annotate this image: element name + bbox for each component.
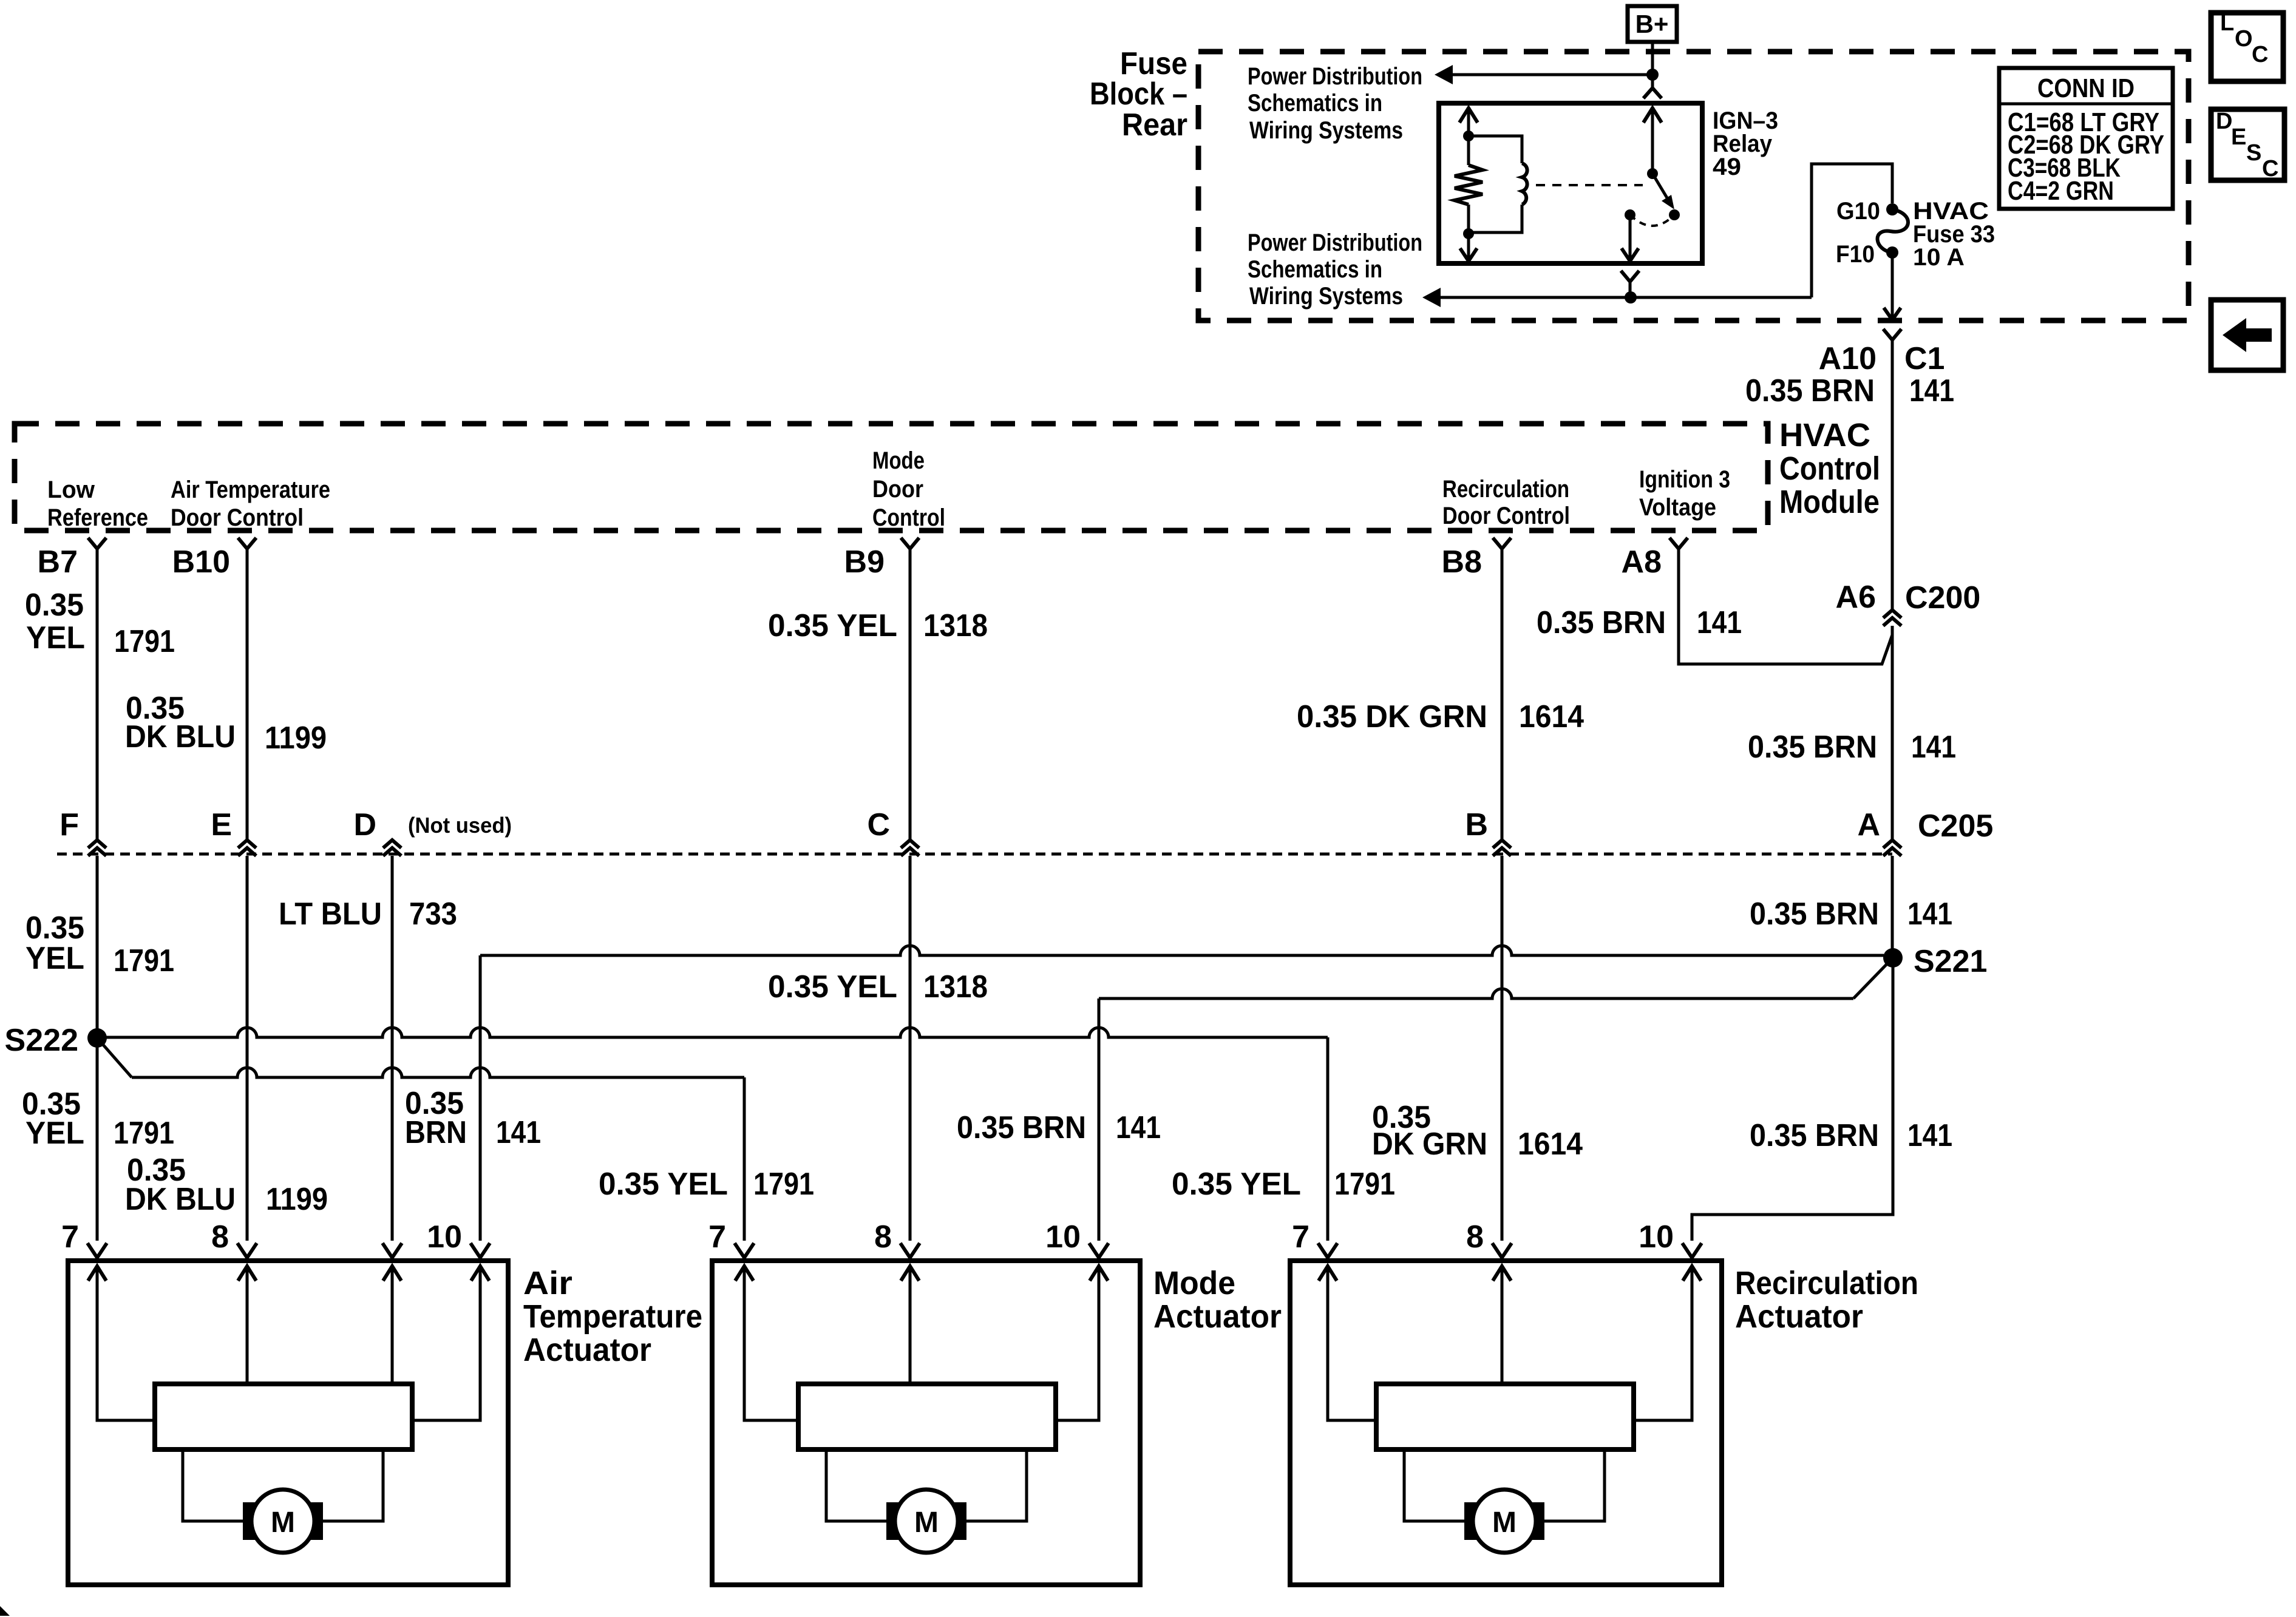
connector symbol below relay: [1621, 271, 1639, 297]
svg-text:S222: S222: [5, 1023, 78, 1058]
wire: B7 low reference to C205 F: [96, 549, 99, 840]
wire: B10 air temp door control to C205 E: [246, 549, 249, 840]
wire: E to air temp actuator pin 8: [246, 856, 249, 1241]
svg-text:B8: B8: [1442, 544, 1482, 580]
module pin B7: [38, 538, 106, 580]
svg-text:7: 7: [708, 1219, 726, 1255]
label: air temperature actuator: [523, 1265, 702, 1368]
svg-text:E: E: [211, 807, 232, 842]
label: HVAC Fuse 33 10 A: [1913, 198, 1995, 271]
svg-text:49: 49: [1713, 154, 1741, 180]
recirculation pin 7: [1292, 1219, 1337, 1258]
label: recirculation actuator: [1735, 1265, 1918, 1335]
splice S221: [1883, 944, 1987, 979]
svg-text:A10: A10: [1819, 341, 1877, 376]
label: 0.35 BRN 141 (above S221): [1750, 897, 1952, 932]
wire: S222 branch to mode actuator pin 7: [132, 1068, 744, 1241]
svg-text:S221: S221: [1914, 944, 1987, 979]
svg-text:1791: 1791: [753, 1167, 814, 1202]
air temperature pin 7: [61, 1219, 107, 1258]
wire: B9 mode door control to C205 C: [909, 549, 912, 840]
label: 0.35 BRN 141 (recirc pin 10): [1750, 1118, 1952, 1153]
svg-text:B+: B+: [1635, 10, 1669, 38]
mode motor M: [895, 1490, 958, 1553]
svg-text:0.35: 0.35: [25, 588, 84, 623]
svg-text:BRN: BRN: [405, 1115, 467, 1150]
label: 0.35 DK BLU 1199 (B10): [125, 691, 327, 756]
svg-text:0.35 DK GRN: 0.35 DK GRN: [1297, 699, 1487, 734]
fuse block - rear dashed boundary box: [1198, 52, 2189, 320]
svg-text:1199: 1199: [266, 1182, 328, 1217]
mode actuator box: [712, 1261, 1140, 1585]
wire: S221 to air temp actuator pin 10: [480, 946, 1884, 1241]
relay output wire down: [1622, 215, 1639, 261]
svg-text:B7: B7: [38, 544, 78, 580]
label: 0.35 DK BLU 1199 (E): [125, 1153, 328, 1217]
mode position sensor block: [798, 1384, 1056, 1449]
svg-text:Ignition 3: Ignition 3: [1639, 466, 1730, 493]
label: 0.35 BRN 141 (above C205): [1748, 730, 1956, 765]
relay box IGN-3 Relay 49: [1439, 103, 1702, 263]
svg-text:8: 8: [211, 1219, 229, 1255]
mode pin 8: [874, 1219, 920, 1258]
wire: S221 down and over to recirculation pin 10: [1692, 958, 1893, 1241]
module pin B9: [844, 538, 919, 580]
svg-text:C205: C205: [1918, 808, 1993, 844]
svg-text:141: 141: [496, 1115, 541, 1150]
CONN ID table: [1999, 68, 2173, 209]
svg-text:YEL: YEL: [25, 941, 84, 976]
air temperature motor terminals: [243, 1502, 323, 1540]
DESC box: [2211, 109, 2284, 181]
svg-text:Control: Control: [1779, 450, 1880, 487]
label: 0.35 BRN 141 (A8): [1537, 605, 1742, 640]
module pin B10: [172, 538, 256, 580]
label: 0.35 YEL 1791 (mode pin 7): [599, 1167, 814, 1202]
C205 pin D: [353, 807, 401, 856]
air temperature pin 8 internal wire: [238, 1266, 256, 1384]
module pin A8: [1622, 538, 1688, 580]
relay coil-branch top arrow: [1459, 108, 1478, 136]
C205 pin C: [867, 807, 919, 856]
svg-text:Mode: Mode: [872, 447, 925, 474]
svg-text:Actuator: Actuator: [1735, 1298, 1863, 1335]
relay switch arm: [1652, 174, 1674, 209]
svg-text:141: 141: [1909, 373, 1954, 408]
recirculation motor terminals: [1464, 1502, 1544, 1540]
relay coil-branch bottom arrow: [1460, 234, 1477, 261]
inline connector C205 dashed line: [57, 853, 1892, 856]
label: mode actuator: [1153, 1265, 1282, 1335]
label: 0.35 YEL 1791 (recirc pin 7): [1172, 1167, 1395, 1202]
svg-text:141: 141: [1116, 1110, 1161, 1145]
svg-text:C200: C200: [1905, 580, 1980, 615]
svg-text:141: 141: [1911, 730, 1956, 765]
label: 0.35 YEL 1791 (F below S222): [22, 1086, 174, 1151]
svg-text:D: D: [2216, 109, 2232, 134]
svg-text:10: 10: [1639, 1219, 1674, 1255]
svg-text:7: 7: [61, 1219, 79, 1255]
wire: A8 ignition 3 voltage to C200 A6: [1679, 549, 1892, 664]
svg-text:F: F: [59, 807, 79, 842]
svg-text:Low: Low: [47, 476, 95, 503]
label: 0.35 BRN 141 (below C1): [1745, 373, 1954, 408]
svg-text:1614: 1614: [1519, 699, 1584, 734]
recirculation motor M: [1473, 1490, 1536, 1553]
relay coil-branch top junction dot: [1463, 131, 1474, 141]
label: pin A6 / connector C200: [1836, 580, 1981, 615]
svg-text:0.35 BRN: 0.35 BRN: [1537, 605, 1666, 640]
HVAC Fuse 33 element: [1878, 209, 1908, 253]
label: LT BLU 733 (D): [279, 897, 457, 932]
module pin B8: [1442, 538, 1511, 580]
svg-text:Schematics in: Schematics in: [1248, 90, 1382, 117]
mode pin 7: [708, 1219, 754, 1258]
svg-text:Block –: Block –: [1090, 76, 1187, 112]
junction dot on relay output: [1625, 291, 1637, 303]
svg-text:C: C: [867, 807, 890, 842]
label: C205: [1918, 808, 1993, 844]
C205 pin B: [1465, 807, 1511, 856]
svg-text:0.35 BRN: 0.35 BRN: [1748, 730, 1877, 765]
svg-text:A6: A6: [1836, 580, 1876, 615]
svg-text:Reference: Reference: [47, 504, 148, 531]
svg-text:DK GRN: DK GRN: [1372, 1127, 1487, 1162]
svg-text:Control: Control: [872, 504, 945, 531]
arrowhead: to power distribution schematics (bottom): [1422, 288, 1441, 307]
svg-text:10: 10: [1045, 1219, 1081, 1255]
svg-text:1318: 1318: [923, 969, 988, 1005]
mode pin 10 internal wire: [1056, 1266, 1108, 1420]
recirculation pin 8 internal wire: [1493, 1266, 1511, 1384]
air temperature pin 10 internal wire: [412, 1266, 489, 1420]
svg-text:0.35 YEL: 0.35 YEL: [1172, 1167, 1301, 1202]
HVAC control module dashed box: [15, 424, 1768, 531]
wire: S221 diagonal to mode pin 10 branch: [1853, 958, 1893, 998]
svg-text:B: B: [1465, 807, 1488, 842]
air temperature position sensor block: [155, 1384, 412, 1449]
air temperature pin 10: [427, 1219, 490, 1258]
svg-text:141: 141: [1907, 1118, 1952, 1153]
svg-text:L: L: [2220, 10, 2234, 36]
svg-text:M: M: [271, 1507, 295, 1539]
air temperature motor wires: [183, 1449, 383, 1521]
svg-text:G10: G10: [1836, 198, 1880, 225]
C205 pin A: [1857, 807, 1901, 856]
air temperature motor M: [251, 1490, 314, 1553]
svg-text:0.35 BRN: 0.35 BRN: [1750, 897, 1879, 932]
svg-text:A: A: [1857, 807, 1880, 842]
mode pin 7 internal wire: [735, 1266, 798, 1420]
mode motor terminals: [886, 1502, 966, 1540]
air temperature unused pin entry: [382, 1243, 402, 1258]
svg-text:1791: 1791: [114, 943, 174, 978]
svg-text:141: 141: [1907, 897, 1952, 932]
svg-text:Schematics in: Schematics in: [1248, 256, 1382, 283]
svg-text:F10: F10: [1836, 241, 1875, 268]
label: Power Distribution Schematics in Wiring Systems (top): [1248, 63, 1422, 144]
svg-text:Power Distribution: Power Distribution: [1248, 229, 1422, 256]
relay switch fixed contact dots: [1625, 209, 1680, 220]
fuse terminal dot G10: [1886, 203, 1898, 215]
label: Ignition 3 Voltage: [1639, 466, 1730, 521]
air temperature actuator box: [68, 1261, 508, 1585]
back-arrow box: [2211, 300, 2283, 370]
wire: 141 BRN from C1 to C200: [1891, 340, 1894, 610]
connector symbol below B+: [1643, 88, 1662, 98]
label: 0.35 DK GRN 1614 (B): [1372, 1100, 1583, 1162]
svg-text:141: 141: [1697, 605, 1742, 640]
wire: F to air temp actuator pin 7: [96, 856, 99, 1241]
wire: relay output to power distribution (left arrow): [1441, 296, 1812, 299]
junction dot on B+ feed: [1646, 69, 1659, 81]
splice S222: [5, 1023, 107, 1058]
svg-text:A8: A8: [1622, 544, 1662, 580]
svg-text:C: C: [2262, 156, 2278, 181]
wire: relay output up and over to fuse G10: [1812, 164, 1892, 297]
svg-text:D: D: [353, 807, 376, 842]
label: Power Distribution Schematics in Wiring Systems (bottom): [1248, 229, 1422, 310]
recirculation pin 8: [1466, 1219, 1512, 1258]
relay coil: [1469, 136, 1527, 232]
air temperature pin 7 internal wire: [88, 1266, 155, 1420]
wire: D to air temp actuator (not used): [391, 856, 394, 1241]
power node B+: [1628, 6, 1677, 42]
svg-text:E: E: [2231, 124, 2246, 150]
svg-text:CONN ID: CONN ID: [2037, 73, 2135, 103]
fuse terminal dot F10: [1886, 246, 1898, 259]
svg-text:Rear: Rear: [1122, 107, 1187, 143]
svg-text:Voltage: Voltage: [1639, 494, 1716, 521]
svg-text:Recirculation: Recirculation: [1442, 476, 1569, 503]
svg-text:733: 733: [409, 897, 457, 932]
recirculation actuator box: [1290, 1261, 1722, 1585]
svg-text:0.35 YEL: 0.35 YEL: [599, 1167, 728, 1202]
svg-text:C1: C1: [1904, 341, 1944, 376]
svg-text:YEL: YEL: [26, 620, 85, 656]
svg-text:1791: 1791: [1334, 1167, 1395, 1202]
svg-text:DK BLU: DK BLU: [125, 1182, 236, 1217]
relay switch input arrow: [1643, 108, 1662, 174]
wire: C to mode actuator pin 8: [909, 856, 912, 1241]
inline connector C200 pin A6: [1883, 610, 1901, 626]
svg-text:1791: 1791: [114, 1116, 174, 1151]
mode pin 8 internal wire: [901, 1266, 919, 1384]
svg-text:7: 7: [1292, 1219, 1309, 1255]
svg-text:Actuator: Actuator: [1153, 1298, 1282, 1335]
svg-text:(Not used): (Not used): [408, 813, 512, 838]
label: 0.35 YEL 1318 (C): [768, 969, 988, 1005]
relay switch pivot dot: [1647, 168, 1658, 179]
mode pin 10: [1045, 1219, 1109, 1258]
label: Recirculation Door Control: [1442, 476, 1570, 529]
mode motor wires: [826, 1449, 1027, 1521]
svg-text:Door Control: Door Control: [1442, 503, 1570, 529]
air temperature unused pin internal wire: [383, 1266, 401, 1384]
dashed travel arc of relay switch: [1630, 215, 1674, 226]
svg-text:S: S: [2246, 140, 2261, 166]
connector symbol C1 below fuse block: [1883, 329, 1901, 340]
wire: S222 diagonal to mode pin 7 branch: [97, 1038, 132, 1077]
resistor (relay internal): [1455, 136, 1483, 234]
C205 pin E: [211, 807, 256, 856]
svg-text:8: 8: [874, 1219, 892, 1255]
svg-text:0.35 BRN: 0.35 BRN: [1750, 1118, 1879, 1153]
recirculation pin 10: [1639, 1219, 1702, 1258]
label: 0.35 YEL 1791 (B7): [25, 588, 175, 659]
label: HVAC Control Module: [1779, 417, 1880, 520]
svg-text:Mode: Mode: [1153, 1265, 1235, 1301]
wire: 141 BRN from C200 to C205: [1891, 626, 1894, 840]
label: pin A10 / connector C1: [1819, 341, 1945, 376]
svg-text:8: 8: [1466, 1219, 1484, 1255]
svg-text:1199: 1199: [265, 720, 327, 756]
svg-text:Actuator: Actuator: [523, 1332, 651, 1368]
label: G10: [1836, 198, 1880, 225]
svg-text:DK BLU: DK BLU: [125, 719, 236, 754]
recirculation pin 7 internal wire: [1319, 1266, 1376, 1420]
wire: feed to power distribution (left arrow): [1447, 73, 1652, 76]
recirculation position sensor block: [1376, 1384, 1634, 1449]
label: 0.35 BRN 141 (air temp pin 10): [405, 1086, 541, 1150]
label: 0.35 YEL 1318 (B9): [768, 608, 988, 643]
wire: B+ down into fuse block: [1651, 42, 1654, 88]
wire: B to recirculation actuator pin 8: [1501, 856, 1504, 1241]
svg-text:B9: B9: [844, 544, 885, 580]
svg-text:Temperature: Temperature: [523, 1298, 702, 1335]
relay coil-branch bottom junction dot: [1463, 228, 1474, 239]
label: 0.35 YEL 1791 (F above S222): [25, 910, 174, 978]
recirculation pin 10 internal wire: [1634, 1266, 1701, 1420]
svg-text:1318: 1318: [923, 608, 988, 643]
svg-text:0.35 YEL: 0.35 YEL: [768, 969, 897, 1005]
svg-text:Air: Air: [523, 1265, 572, 1301]
svg-text:Power Distribution: Power Distribution: [1248, 63, 1422, 90]
label: Low Reference: [47, 476, 148, 531]
svg-text:C4=2 GRN: C4=2 GRN: [2008, 176, 2114, 206]
svg-text:Wiring Systems: Wiring Systems: [1249, 283, 1403, 310]
svg-text:10 A: 10 A: [1913, 244, 1965, 271]
svg-text:M: M: [914, 1507, 939, 1539]
svg-text:LT BLU: LT BLU: [279, 897, 382, 932]
svg-text:1614: 1614: [1518, 1127, 1583, 1162]
recirculation motor wires: [1404, 1449, 1605, 1521]
svg-text:B10: B10: [172, 544, 230, 580]
wire: A down to splice S221: [1891, 856, 1894, 958]
svg-text:Wiring Systems: Wiring Systems: [1249, 117, 1403, 144]
svg-text:C: C: [2252, 42, 2268, 67]
arrowhead: to power distribution schematics (top): [1435, 65, 1453, 84]
label: Fuse Block - Rear: [1090, 46, 1187, 143]
wire: fuse F10 output down: [1891, 253, 1894, 319]
label: IGN-3 Relay 49: [1713, 107, 1778, 180]
LOC box: [2211, 10, 2283, 81]
label: 0.35 DK GRN 1614 (B8): [1297, 699, 1584, 734]
label: 0.35 BRN 141 (mode pin 10): [957, 1110, 1161, 1145]
svg-text:Door Control: Door Control: [171, 504, 304, 531]
C205 pin F: [59, 807, 106, 856]
label: F10: [1836, 241, 1875, 268]
label: Mode Door Control: [872, 447, 945, 531]
svg-text:M: M: [1492, 1507, 1517, 1539]
label: Air Temperature Door Control: [171, 476, 330, 531]
svg-text:0.35 YEL: 0.35 YEL: [768, 608, 897, 643]
svg-text:1791: 1791: [114, 624, 175, 659]
wire: B8 recirculation door control to C205 B: [1501, 549, 1504, 840]
svg-text:0.35 BRN: 0.35 BRN: [1745, 373, 1875, 408]
svg-text:10: 10: [427, 1219, 462, 1255]
svg-text:Module: Module: [1779, 484, 1880, 520]
svg-text:Air Temperature: Air Temperature: [171, 476, 330, 503]
arrowhead at fuse block boundary: [1884, 308, 1901, 320]
wire: S222 to recirculation actuator pin 7: [97, 1028, 1328, 1241]
svg-text:HVAC: HVAC: [1779, 417, 1870, 453]
svg-text:0.35 BRN: 0.35 BRN: [957, 1110, 1086, 1145]
svg-text:Door: Door: [872, 476, 923, 503]
dashed link: coil to switch: [1536, 184, 1643, 186]
label: (Not used): [408, 813, 512, 838]
svg-text:Recirculation: Recirculation: [1735, 1265, 1918, 1301]
svg-text:O: O: [2235, 26, 2253, 52]
svg-text:YEL: YEL: [25, 1116, 84, 1151]
air temperature pin 8: [211, 1219, 257, 1258]
wire: S221 branch to mode actuator pin 10: [1099, 989, 1853, 1241]
